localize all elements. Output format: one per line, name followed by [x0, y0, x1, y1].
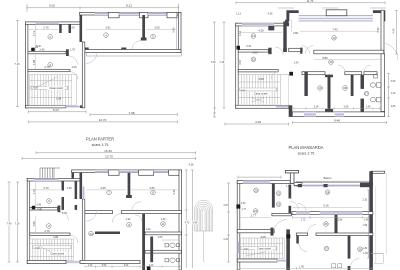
svg-text:2.76: 2.76 — [44, 229, 50, 233]
svg-text:11: 11 — [161, 222, 164, 226]
svg-text:2.76: 2.76 — [43, 25, 49, 29]
bottom dim row plan3 — [85, 265, 181, 268]
svg-text:1.05: 1.05 — [71, 65, 77, 69]
top dim line 1 — [36, 151, 196, 154]
interior wall right wing vertical — [142, 15, 145, 38]
svg-text:7.16: 7.16 — [219, 61, 224, 64]
eave line under right wing — [87, 53, 182, 57]
svg-text:1.20: 1.20 — [391, 93, 396, 95]
svg-text:3.05: 3.05 — [100, 186, 106, 190]
svg-text:scara 1:75: scara 1:75 — [298, 151, 315, 155]
wall between wings p3 — [80, 171, 83, 199]
svg-text:0.88: 0.88 — [293, 32, 298, 35]
text casa scarii plan4 — [255, 247, 273, 250]
svg-text:Balcon: Balcon — [324, 176, 332, 180]
main horizontal wall p4 — [292, 212, 373, 215]
svg-text:5.40: 5.40 — [172, 27, 176, 33]
outer wall: p3 left wall — [27, 178, 30, 263]
entrance door blue — [66, 105, 80, 108]
staircase plan3 — [30, 239, 74, 261]
svg-text:21: 21 — [254, 209, 258, 213]
svg-text:1.13: 1.13 — [238, 30, 242, 36]
svg-text:2.14: 2.14 — [314, 105, 319, 108]
svg-text:16: 16 — [329, 60, 333, 64]
pier p3b — [139, 170, 154, 175]
svg-text:8.85: 8.85 — [322, 56, 328, 60]
staircase plan1 — [29, 75, 76, 106]
svg-text:26: 26 — [358, 247, 362, 251]
pier left section — [268, 26, 274, 31]
svg-text:15: 15 — [252, 58, 256, 62]
window right wing top 2 — [119, 12, 140, 15]
nested arch symbol p3 — [195, 200, 213, 231]
room circles plan3 — [47, 199, 52, 204]
pier p3c — [169, 170, 180, 175]
top dim line p4 — [238, 176, 281, 179]
svg-text:5.07: 5.07 — [53, 108, 59, 112]
p3 right wing bottom wall — [85, 211, 113, 214]
svg-text:14: 14 — [252, 34, 256, 38]
chimney black p4 — [236, 204, 240, 208]
dimension bottom overall — [28, 120, 177, 123]
svg-text:1.40: 1.40 — [294, 62, 299, 65]
svg-text:7.90: 7.90 — [211, 61, 216, 64]
lower right area walls p3 — [142, 214, 145, 270]
svg-text:8.21: 8.21 — [126, 4, 132, 8]
svg-text:2.87: 2.87 — [224, 205, 229, 207]
left section bottom wall — [236, 105, 289, 108]
svg-text:1.08: 1.08 — [56, 96, 62, 100]
outer wall: left wing left wall — [25, 22, 28, 108]
svg-text:4.40: 4.40 — [393, 28, 396, 33]
svg-text:15.30: 15.30 — [104, 149, 112, 153]
outer wall: left wing top wall — [25, 22, 80, 24]
svg-text:7.16: 7.16 — [14, 62, 20, 66]
terrace bottom right p4 — [371, 252, 383, 254]
chimney bump on room13 top — [326, 10, 347, 16]
chimney black plan2b — [289, 72, 293, 76]
chimney black p3b — [147, 266, 151, 270]
svg-text:4.08: 4.08 — [261, 236, 266, 239]
right dim chain plan2 — [387, 74, 390, 117]
svg-text:8x30: 8x30 — [35, 248, 41, 250]
left dim line p4 — [227, 183, 230, 262]
svg-text:1.68: 1.68 — [32, 59, 36, 65]
window left wing top — [36, 22, 59, 24]
pier p3 — [108, 170, 119, 175]
svg-text:1.40: 1.40 — [299, 266, 304, 269]
interior walls p4 left section — [272, 184, 275, 208]
svg-text:1.05: 1.05 — [69, 25, 75, 29]
room circle 2 — [48, 35, 53, 40]
svg-text:7.08: 7.08 — [128, 111, 134, 115]
room13 top-left corner block — [286, 10, 298, 21]
pier 3 right wing — [167, 12, 177, 17]
outer wall: p4 top wall mid — [294, 182, 302, 185]
svg-text:PLAN PARTER: PLAN PARTER — [86, 137, 114, 142]
svg-text:Casa scarii: Casa scarii — [257, 247, 271, 251]
svg-text:25: 25 — [324, 222, 328, 226]
svg-text:22: 22 — [277, 191, 281, 195]
strip top walls — [302, 72, 325, 75]
chimney black p3 — [32, 206, 35, 210]
door arcs p4 — [290, 202, 298, 210]
text casa scarii plan2 — [252, 92, 270, 96]
svg-text:PLAN MANSARDA: PLAN MANSARDA — [288, 145, 323, 150]
svg-text:1.76: 1.76 — [70, 48, 75, 51]
balcony rail p4 — [297, 181, 370, 183]
interior wall A — [28, 51, 66, 54]
text casa scarii plan1 — [47, 86, 65, 90]
outer wall: p3 right wing top wall — [72, 170, 182, 173]
svg-text:0.40: 0.40 — [37, 205, 42, 207]
svg-text:Casa scarii: Casa scarii — [50, 252, 64, 256]
outer wall: p3 right wall — [179, 170, 182, 270]
door arc stair room — [70, 72, 78, 80]
room13 top window band — [299, 16, 373, 21]
wall between room14 and hall — [283, 21, 286, 51]
bottom dims plan2 — [225, 123, 289, 126]
svg-text:12.70: 12.70 — [105, 155, 113, 159]
flue symbol — [35, 46, 38, 48]
fixtures p3 bath — [162, 240, 180, 262]
svg-text:24: 24 — [326, 190, 330, 194]
text casa scarii plan3 — [49, 252, 67, 256]
wall right of balcony window — [360, 182, 373, 187]
room circles plan2 — [251, 34, 256, 39]
dim text 7.16 — [14, 62, 21, 65]
svg-text:5.40: 5.40 — [192, 222, 197, 225]
svg-text:2.86: 2.86 — [253, 52, 258, 55]
wall between wings — [80, 14, 83, 42]
svg-text:1.40: 1.40 — [146, 228, 151, 231]
svg-text:2.86: 2.86 — [338, 219, 343, 222]
wall strip 2 — [351, 75, 354, 96]
fixtures p4 — [332, 264, 342, 268]
room circle 4 — [104, 33, 109, 38]
right dim chain plan3 — [185, 170, 194, 268]
svg-text:4.26: 4.26 — [268, 13, 273, 16]
strip connector vertical — [289, 105, 293, 117]
svg-text:1.13: 1.13 — [294, 185, 299, 188]
svg-text:1.35: 1.35 — [66, 186, 72, 190]
wall right of stairs p4 — [286, 229, 290, 270]
interior wall A2 — [238, 50, 268, 52]
outer wall: left wing right wall — [82, 42, 85, 108]
exterior stair bump plan3 — [40, 168, 60, 178]
interior vertical p3 room6 right — [62, 181, 65, 191]
svg-text:2.40: 2.40 — [37, 208, 42, 211]
outer wall: p4 top wall left — [237, 180, 290, 183]
window p3 top left — [34, 178, 58, 181]
stub wall from top wall 2 — [69, 24, 72, 33]
svg-text:2.06: 2.06 — [344, 105, 349, 108]
svg-text:8x30: 8x30 — [244, 249, 250, 251]
wall strip 3 (bath) — [361, 75, 365, 89]
outer wall: p4 right wall — [369, 171, 373, 270]
svg-text:Casa scarii: Casa scarii — [254, 92, 268, 96]
svg-text:4.08: 4.08 — [258, 77, 264, 81]
left dim lines — [213, 22, 226, 117]
chimney stack bump p4 — [285, 170, 298, 173]
svg-text:2.10: 2.10 — [362, 199, 367, 202]
svg-text:19: 19 — [318, 86, 322, 90]
door arc hall — [69, 56, 78, 65]
svg-text:0.40: 0.40 — [241, 203, 246, 205]
svg-text:2.76: 2.76 — [44, 65, 50, 69]
svg-text:7.16: 7.16 — [15, 223, 20, 226]
outer wall: p3 bottom wall — [27, 261, 66, 264]
svg-text:1.36: 1.36 — [363, 252, 368, 255]
dimension bottom line (right wing) — [90, 113, 178, 116]
svg-text:Casa scarii: Casa scarii — [49, 86, 63, 90]
svg-text:5.40: 5.40 — [376, 27, 380, 33]
svg-text:1.73: 1.73 — [32, 30, 36, 36]
pier under top wall — [108, 12, 119, 17]
svg-text:2.20: 2.20 — [224, 239, 229, 241]
svg-text:scara 1:75: scara 1:75 — [92, 143, 109, 147]
svg-text:0.97: 0.97 — [238, 59, 242, 65]
svg-text:1.98: 1.98 — [362, 224, 367, 227]
outer wall: right wing bottom wall — [85, 50, 181, 53]
svg-text:1.40: 1.40 — [88, 265, 93, 267]
left section top wall — [236, 23, 289, 26]
corridor lower vertical wall p4 — [296, 233, 299, 244]
svg-text:17: 17 — [365, 92, 369, 96]
staircase plan4 — [241, 238, 285, 259]
svg-text:0.40: 0.40 — [247, 46, 252, 48]
bath fixtures — [370, 75, 381, 102]
svg-text:5.16: 5.16 — [323, 203, 329, 207]
door arcs p3 — [60, 212, 68, 220]
room circle 3 — [48, 62, 53, 67]
step wall between sections — [285, 20, 289, 26]
window left section top — [242, 23, 274, 26]
door arc junction — [86, 53, 97, 64]
svg-text:3.00: 3.00 — [124, 265, 129, 267]
svg-text:1.60: 1.60 — [158, 236, 163, 239]
svg-text:1.77: 1.77 — [241, 208, 246, 211]
svg-text:4.93: 4.93 — [255, 120, 261, 124]
svg-text:23: 23 — [277, 202, 281, 206]
window p3 right wing 3 — [154, 170, 169, 173]
svg-text:1.48: 1.48 — [286, 185, 291, 188]
top right bar p4 — [371, 171, 385, 173]
svg-text:7.43: 7.43 — [332, 27, 338, 31]
pier 2 right wing — [140, 12, 148, 17]
svg-text:3.05: 3.05 — [154, 25, 160, 29]
windows bottom strip — [304, 112, 316, 117]
svg-text:4.70: 4.70 — [185, 222, 190, 225]
chimney black plan2 — [237, 46, 241, 50]
svg-text:4.08: 4.08 — [53, 236, 58, 239]
strip right wall — [381, 54, 385, 112]
room circles plan4 — [253, 209, 258, 214]
interior wall B — [28, 69, 70, 71]
svg-text:4.26: 4.26 — [189, 164, 194, 167]
windows in main wall p4 — [296, 212, 310, 215]
svg-text:1.85: 1.85 — [391, 106, 396, 108]
left section left wall — [236, 23, 239, 108]
bottom strip bottom wall — [292, 112, 384, 117]
room13 top-right corner block — [373, 10, 385, 21]
outer wall: p3 left wing top wall — [27, 178, 80, 181]
outer wall: p3 left wing right wall — [82, 199, 85, 264]
door jamb stubs at junction — [85, 48, 89, 50]
svg-text:8x30: 8x30 — [241, 90, 247, 92]
staircase plan2 — [239, 75, 289, 106]
svg-text:2.40: 2.40 — [40, 48, 45, 51]
room13 right wall — [381, 10, 384, 54]
svg-text:9.46: 9.46 — [334, 119, 340, 123]
window p4 top left — [243, 180, 270, 183]
entrance door blue p3 — [66, 261, 80, 264]
hall wall left piece — [289, 48, 303, 51]
svg-text:20: 20 — [254, 189, 258, 193]
svg-text:12.70: 12.70 — [99, 118, 107, 122]
outer wall: left wing bottom wall — [25, 105, 66, 108]
stub wall from top wall 1 — [59, 24, 62, 33]
window in left wing right wall p3 — [82, 187, 85, 200]
svg-text:5.02: 5.02 — [49, 4, 55, 8]
dimension top line — [27, 4, 179, 13]
svg-text:1.40: 1.40 — [161, 218, 166, 221]
interior wall B3 — [30, 233, 70, 235]
window p3 right wing 1 — [95, 170, 108, 173]
svg-text:11.70: 11.70 — [307, 0, 314, 3]
I wall strip — [328, 75, 331, 112]
svg-text:3.66: 3.66 — [149, 186, 155, 190]
interior vertical p3 right wing — [128, 173, 131, 196]
outer wall: right wing right wall — [179, 12, 182, 52]
svg-text:0.56: 0.56 — [102, 265, 107, 267]
svg-text:18: 18 — [343, 86, 347, 90]
top dim line 2 — [22, 157, 196, 160]
window right wing top 1 — [95, 12, 108, 15]
chimney black p4b — [286, 234, 290, 238]
window right wing top 3 — [148, 12, 167, 15]
door arc right wing room4 — [132, 41, 141, 50]
door arcs plan2 — [302, 46, 310, 54]
interior dim column plan4 right — [367, 190, 370, 258]
room circle 5 — [151, 34, 156, 39]
window p3 right wing 2 — [119, 170, 140, 173]
interior wall p4 above stairs — [237, 229, 274, 232]
svg-text:13: 13 — [332, 36, 336, 40]
svg-text:1.72: 1.72 — [301, 219, 306, 222]
outer wall: p4 left wall — [237, 180, 240, 270]
room13 bottom wall — [314, 50, 384, 54]
svg-text:2.20: 2.20 — [149, 265, 154, 267]
interior wall A3 — [30, 208, 58, 211]
wall A end cap — [66, 49, 69, 56]
svg-text:1.40: 1.40 — [366, 105, 371, 108]
outer wall: p4 bottom wall partial — [237, 259, 277, 262]
interior vertical p3 corridor — [75, 181, 78, 199]
dimension bottom line 1 (left wing) — [28, 110, 86, 113]
svg-text:7.40: 7.40 — [7, 223, 12, 226]
balcony window band p4 — [298, 184, 302, 187]
svg-text:1.42: 1.42 — [126, 218, 131, 221]
svg-text:0.90: 0.90 — [391, 81, 396, 83]
chimney black — [31, 48, 35, 52]
wall hall vertical — [304, 72, 307, 96]
svg-text:1.46: 1.46 — [364, 219, 369, 222]
svg-text:1.30: 1.30 — [362, 247, 367, 250]
rooms 26/27 wall p4 — [296, 233, 307, 236]
outer wall: right wing top wall — [80, 12, 182, 15]
svg-text:10: 10 — [89, 232, 93, 236]
svg-text:2.70: 2.70 — [43, 186, 49, 190]
interior wall B2 — [238, 70, 278, 72]
svg-text:1.68: 1.68 — [32, 221, 36, 227]
svg-text:4.26: 4.26 — [258, 29, 264, 33]
svg-text:0.40: 0.40 — [36, 46, 41, 48]
svg-text:5.40: 5.40 — [172, 189, 176, 195]
dimension left line — [16, 20, 19, 106]
svg-text:2.77: 2.77 — [251, 213, 257, 217]
svg-text:1.73: 1.73 — [32, 189, 36, 195]
left dim lines plan3 — [8, 182, 20, 262]
svg-text:17x18: 17x18 — [31, 87, 38, 90]
svg-text:3.61: 3.61 — [105, 25, 111, 29]
eave lines p4 right — [386, 173, 388, 254]
svg-text:1.13: 1.13 — [236, 13, 241, 16]
svg-text:1.76: 1.76 — [62, 212, 67, 215]
svg-text:27: 27 — [325, 247, 329, 251]
top dim line — [236, 1, 385, 4]
